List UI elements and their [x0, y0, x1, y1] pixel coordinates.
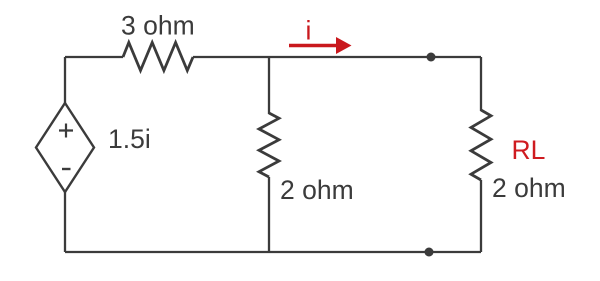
svg-text:2 ohm: 2 ohm — [280, 175, 354, 205]
svg-text:RL: RL — [512, 135, 546, 165]
wire: top rail left segment (top-left corner to resistor) — [65, 56, 123, 58]
minus terminal mark — [62, 168, 71, 170]
resistor R2 2 ohm (middle vertical zigzag) — [259, 113, 279, 177]
resistor R1 3 ohm (horizontal zigzag) — [123, 43, 193, 71]
plus terminal mark — [59, 124, 73, 138]
wire: bottom rail — [65, 251, 481, 253]
wire: right branch lower (resistor to bottom rail) — [480, 180, 482, 252]
node A (top junction dot) — [427, 53, 436, 62]
resistor RL (right vertical zigzag) — [471, 110, 491, 180]
current arrow i — [289, 44, 337, 47]
wire: middle branch lower (resistor to bottom rail) — [268, 177, 270, 252]
wire: middle branch upper (top rail to resistor) — [268, 57, 270, 114]
svg-text:3 ohm: 3 ohm — [121, 11, 195, 41]
wire: left branch upper (top rail down to source) — [64, 57, 66, 104]
dependent voltage source U1 (diamond, 1.5i) — [36, 103, 94, 192]
node B (bottom junction dot) — [425, 248, 434, 257]
svg-text:1.5i: 1.5i — [108, 124, 151, 154]
wire: top rail right segment (resistor to top-right corner) — [193, 56, 481, 58]
svg-text:i: i — [306, 16, 312, 46]
wire: left branch lower (source to bottom rail) — [64, 192, 66, 252]
svg-text:2 ohm: 2 ohm — [492, 173, 566, 203]
wire: right branch upper (top-right corner to resistor RL) — [480, 57, 482, 111]
